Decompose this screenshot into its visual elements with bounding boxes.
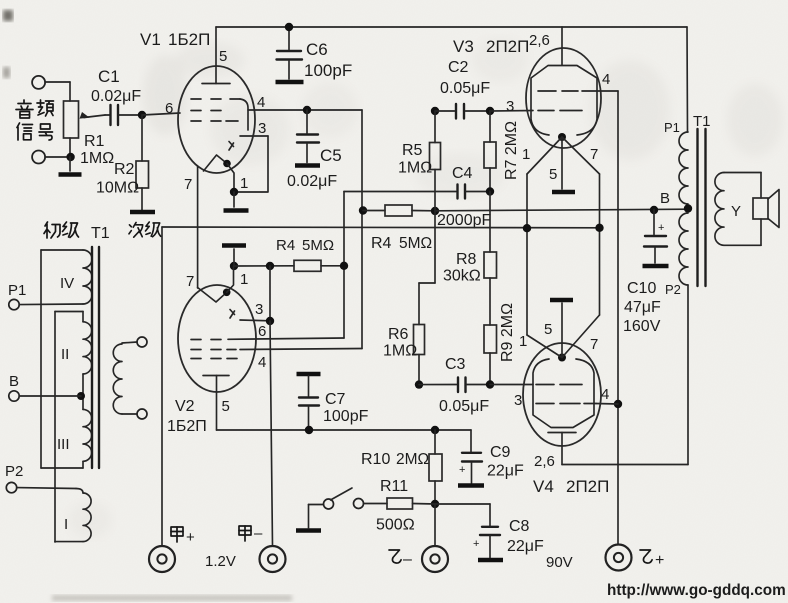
V4 pin 1 lead bbox=[527, 335, 562, 358]
svg-text:C4: C4 bbox=[452, 165, 473, 182]
svg-text:3: 3 bbox=[506, 98, 514, 115]
terminal P2 with label bbox=[6, 482, 16, 492]
label 初级 primary bbox=[44, 222, 60, 238]
V3 grid dashes row2 bbox=[538, 110, 554, 112]
V1 filament bar pin 5 bbox=[215, 27, 217, 84]
resistor R11 500Ω bbox=[364, 503, 388, 505]
svg-text:C10: C10 bbox=[627, 280, 656, 297]
node V2 pin3 bbox=[266, 317, 274, 325]
V1 cathode tick bbox=[229, 142, 234, 151]
svg-text:1Б2П: 1Б2П bbox=[167, 418, 207, 435]
svg-text:1: 1 bbox=[519, 333, 527, 350]
node C7 bottom bbox=[305, 426, 313, 434]
svg-text:0.02μF: 0.02μF bbox=[287, 173, 337, 190]
V1 pin 1 lead bbox=[227, 164, 234, 193]
svg-text:6: 6 bbox=[165, 100, 173, 117]
V4 filament bar pin 2,6 bbox=[548, 432, 576, 434]
svg-text:3: 3 bbox=[258, 120, 266, 137]
capacitor C3 0.05μF bbox=[419, 384, 457, 386]
output T1 winding P1 bbox=[679, 132, 688, 204]
T1 winding II bbox=[55, 311, 83, 313]
svg-text:+: + bbox=[186, 529, 195, 546]
svg-text:R11: R11 bbox=[380, 478, 408, 495]
svg-text:T1: T1 bbox=[91, 225, 110, 242]
svg-text:C9: C9 bbox=[490, 444, 511, 461]
svg-text:R10: R10 bbox=[361, 451, 390, 468]
T1 winding I bbox=[17, 487, 76, 490]
svg-text:R8: R8 bbox=[456, 251, 477, 268]
svg-text:1: 1 bbox=[522, 146, 530, 163]
svg-text:4: 4 bbox=[601, 386, 609, 403]
switch K contacts bbox=[324, 499, 334, 509]
capacitor C9 22μF electrolytic bbox=[470, 430, 472, 452]
svg-text:C1: C1 bbox=[98, 67, 120, 86]
svg-text:Y: Y bbox=[731, 203, 741, 220]
svg-text:4: 4 bbox=[257, 94, 265, 111]
output secondary winding bbox=[715, 173, 724, 246]
tube V3 2П2П envelope bbox=[526, 48, 601, 148]
potentiometer R1 1MΩ body bbox=[45, 81, 70, 83]
switch K ground bbox=[296, 528, 321, 533]
svg-text:160V: 160V bbox=[623, 318, 661, 335]
T1 winding III bbox=[83, 409, 92, 461]
tube V4 2П2П envelope bbox=[523, 343, 601, 446]
wire V3/V4 cathode rail pin1 bbox=[526, 174, 528, 335]
svg-text:22μF: 22μF bbox=[507, 538, 544, 555]
svg-text:500Ω: 500Ω bbox=[376, 517, 415, 534]
svg-text:1MΩ: 1MΩ bbox=[383, 343, 417, 360]
node V1 pin1 bbox=[230, 188, 238, 196]
svg-text:5: 5 bbox=[219, 48, 227, 65]
wire P2 down to V4 filament wire bbox=[687, 285, 689, 465]
svg-text:1MΩ: 1MΩ bbox=[80, 150, 114, 167]
node C1/R2/grid bbox=[138, 111, 146, 119]
svg-text:V4: V4 bbox=[533, 477, 554, 496]
svg-text:R5: R5 bbox=[402, 142, 423, 159]
V3 grid dashes row1 and pin 4 wire bbox=[538, 90, 556, 92]
svg-text:R4: R4 bbox=[276, 237, 295, 254]
svg-text:R7 2MΩ: R7 2MΩ bbox=[503, 121, 520, 180]
svg-text:B: B bbox=[9, 373, 19, 390]
svg-text:3: 3 bbox=[255, 301, 263, 318]
resistor R8 30kΩ bbox=[489, 192, 491, 253]
svg-text:P1: P1 bbox=[664, 120, 680, 135]
svg-text:100pF: 100pF bbox=[323, 408, 369, 425]
svg-text:10MΩ: 10MΩ bbox=[96, 180, 139, 197]
svg-text:3: 3 bbox=[514, 392, 522, 409]
wire input bottom to pot bbox=[45, 156, 70, 158]
wire top bus bbox=[216, 26, 687, 28]
wire B rail bbox=[435, 209, 688, 211]
node C2 right bbox=[486, 107, 494, 115]
ground above V2 pin1 bbox=[233, 249, 235, 266]
svg-text:30kΩ: 30kΩ bbox=[443, 268, 481, 285]
svg-text:C3: C3 bbox=[445, 356, 466, 373]
V3 pin 5 lead bbox=[561, 137, 563, 189]
V2 pin 3 wire bbox=[240, 319, 270, 322]
capacitor C2 0.05μF bbox=[435, 110, 455, 112]
V1 pin 4 wire to node bbox=[248, 109, 362, 111]
resistor R9 2MΩ bbox=[489, 278, 491, 325]
wire V3/V4 pin7 rail bbox=[599, 174, 601, 315]
svg-text:2000pF: 2000pF bbox=[437, 212, 491, 229]
node C4 right bbox=[486, 187, 494, 195]
wire C2 to V3 pin 3 bbox=[490, 110, 533, 113]
node pot bottom bbox=[66, 153, 74, 161]
svg-text:I: I bbox=[64, 516, 68, 533]
V1 cathode node bbox=[223, 160, 231, 168]
svg-text:5MΩ: 5MΩ bbox=[399, 235, 432, 252]
V1 pin 7 wire down to V2 pin 7 bbox=[197, 166, 199, 288]
T1 left rail outer bbox=[40, 250, 42, 468]
label 次级 secondary bbox=[129, 222, 143, 237]
V4 pin 7 lead bbox=[562, 315, 600, 358]
svg-text:2MΩ: 2MΩ bbox=[396, 451, 429, 468]
svg-text:1.2V: 1.2V bbox=[205, 553, 236, 570]
secondary terminal bottom bbox=[137, 409, 147, 419]
svg-text:II: II bbox=[61, 346, 69, 363]
node R10 bottom / 乙- feed bbox=[431, 500, 439, 508]
V2 grid dashes row2 and pin 4 wire bbox=[191, 349, 201, 351]
output T1 winding P2 bbox=[679, 213, 688, 285]
secondary winding 次级 coil bbox=[113, 344, 122, 414]
tube V1 1Б2П envelope bbox=[178, 66, 255, 173]
ground V3 pin 5 bbox=[552, 190, 575, 195]
V1 grid dashes bbox=[191, 98, 201, 100]
wire C3 to V4 pin 3 bbox=[490, 384, 533, 386]
svg-text:100pF: 100pF bbox=[304, 61, 352, 80]
svg-text:B: B bbox=[660, 190, 670, 207]
V3 filament lead pin 2,6 bbox=[561, 27, 563, 65]
resistor R7 2MΩ bbox=[489, 111, 491, 142]
wire pin3 node to 甲- terminal bbox=[270, 321, 273, 546]
svg-text:5: 5 bbox=[549, 166, 557, 183]
terminal 乙- with label bbox=[422, 546, 448, 572]
resistor R10 2MΩ bbox=[431, 426, 439, 434]
svg-text:C8: C8 bbox=[509, 518, 530, 535]
svg-text:1MΩ: 1MΩ bbox=[398, 160, 432, 177]
ground under C5 bbox=[295, 163, 320, 168]
svg-text:47μF: 47μF bbox=[624, 299, 661, 316]
node C6 top bbox=[285, 23, 293, 31]
wire anode corner down bbox=[361, 110, 363, 349]
svg-text:+: + bbox=[459, 464, 465, 476]
node C5/anode bbox=[303, 106, 311, 114]
node bus right end bbox=[595, 224, 603, 232]
V2 grid dashes row1 and pin 6 wire bbox=[191, 339, 201, 341]
svg-text:7: 7 bbox=[590, 336, 598, 353]
svg-text:P2: P2 bbox=[5, 463, 23, 480]
svg-text:7: 7 bbox=[184, 176, 192, 193]
wire B tap bbox=[19, 395, 81, 397]
svg-text:0.05μF: 0.05μF bbox=[440, 80, 490, 97]
node R4b left / V2 pin3 riser bbox=[266, 262, 274, 270]
node pin1 rail on bus bbox=[523, 224, 531, 232]
label 音频信号 (audio signal) bbox=[16, 100, 33, 118]
tube V2 1Б2П envelope bbox=[178, 285, 256, 392]
resistor R6 1MΩ bbox=[418, 283, 420, 325]
V2 cathode vee bbox=[198, 288, 227, 303]
svg-text:V2: V2 bbox=[175, 398, 195, 415]
node R9 bottom bbox=[486, 380, 494, 388]
svg-text:P2: P2 bbox=[665, 282, 681, 297]
wire coupling to C4 bbox=[344, 191, 456, 193]
node V2 pin1 bbox=[230, 262, 238, 270]
svg-text:R6: R6 bbox=[388, 326, 409, 343]
V1 cathode vee bbox=[204, 155, 228, 171]
svg-text:C7: C7 bbox=[325, 391, 346, 408]
svg-text:C5: C5 bbox=[320, 146, 342, 165]
capacitor C7 100pF with top ground bbox=[297, 372, 321, 377]
resistor R2 10MΩ bbox=[141, 115, 143, 161]
V1 pin3-pin1 feedback loop bbox=[234, 136, 268, 192]
terminal 甲+ with label bbox=[149, 546, 175, 572]
T1 left rail inner bbox=[54, 312, 56, 543]
svg-text:7: 7 bbox=[590, 146, 598, 163]
node R6 bottom bbox=[415, 380, 423, 388]
V2 grid dashes row3 bbox=[191, 358, 201, 360]
ground under C9 bbox=[458, 483, 484, 488]
V1 pin 3 wire bbox=[240, 135, 268, 137]
svg-text:R4: R4 bbox=[371, 235, 392, 252]
ground V1 pin 1 bbox=[233, 192, 235, 207]
wire V3 pin 4 down to V4 pin 4 bbox=[617, 91, 619, 544]
output T1 core bbox=[696, 129, 698, 286]
capacitor C4 2000pF bbox=[456, 185, 458, 199]
V4 cathode node bbox=[558, 354, 566, 362]
svg-text:22μF: 22μF bbox=[487, 463, 524, 480]
svg-text:IV: IV bbox=[60, 275, 74, 292]
svg-text:1Б2П: 1Б2П bbox=[168, 30, 210, 49]
speaker Y bbox=[753, 198, 768, 219]
svg-text:6: 6 bbox=[258, 323, 266, 340]
ground under R2 bbox=[130, 210, 155, 215]
wire V4 pin 4 bbox=[596, 403, 618, 406]
svg-text:7: 7 bbox=[186, 273, 194, 290]
svg-text:R2: R2 bbox=[114, 161, 135, 178]
svg-text:http://www.go-gddq.com: http://www.go-gddq.com bbox=[607, 582, 786, 599]
svg-text:5: 5 bbox=[544, 321, 552, 338]
svg-text:2П2П: 2П2П bbox=[566, 477, 609, 496]
V3 screen box bbox=[531, 66, 597, 136]
svg-text:+: + bbox=[473, 538, 479, 550]
svg-text:4: 4 bbox=[602, 71, 610, 88]
node B tap T1 bbox=[77, 392, 85, 400]
svg-text:III: III bbox=[57, 436, 70, 453]
svg-text:0.02μF: 0.02μF bbox=[91, 88, 141, 105]
input terminal J1 bottom bbox=[32, 151, 45, 164]
svg-text:5: 5 bbox=[222, 398, 230, 415]
V2 cathode node bbox=[223, 289, 231, 297]
wire top bus right corner down bbox=[686, 27, 689, 132]
svg-text:+: + bbox=[658, 222, 664, 234]
ground under C6 bbox=[276, 80, 304, 85]
resistor R5 1MΩ bbox=[434, 111, 436, 143]
secondary terminal top bbox=[137, 337, 147, 347]
ground V4 pin 5 above bbox=[550, 298, 573, 303]
V4 pin 5 lead bbox=[561, 303, 563, 358]
node C2 left bbox=[431, 107, 439, 115]
svg-text:R1: R1 bbox=[84, 133, 105, 150]
V2 filament bar pin 5 bbox=[203, 375, 229, 377]
wire R5 node down to R6 bbox=[434, 211, 436, 283]
node B tap output T1 bbox=[684, 204, 692, 212]
potentiometer R1 wiper arrow bbox=[84, 115, 105, 118]
svg-text:C2: C2 bbox=[448, 59, 469, 76]
node V4 pin 4 bbox=[614, 400, 622, 408]
resistor R4a 5MΩ bbox=[363, 210, 385, 212]
svg-text:2,6: 2,6 bbox=[529, 32, 550, 49]
svg-text:1: 1 bbox=[240, 271, 248, 288]
svg-text:V3: V3 bbox=[453, 37, 474, 56]
capacitor C10 47μF 160V bbox=[650, 206, 658, 214]
T1 winding IV bbox=[41, 249, 83, 251]
resistor R4b 5MΩ bbox=[234, 265, 294, 267]
node R4b right bbox=[340, 262, 348, 270]
svg-text:0.05μF: 0.05μF bbox=[439, 398, 489, 415]
svg-text:T1: T1 bbox=[693, 113, 711, 130]
ground under C10 bbox=[643, 264, 669, 269]
wire to 乙- terminal bbox=[434, 504, 436, 545]
capacitor C5 0.02μF bbox=[306, 110, 308, 133]
terminal 甲- with label bbox=[260, 546, 286, 572]
svg-text:90V: 90V bbox=[546, 554, 573, 571]
ground under C8 bbox=[478, 558, 503, 563]
svg-text:2,6: 2,6 bbox=[534, 453, 555, 470]
svg-text:2П2П: 2П2П bbox=[486, 37, 529, 56]
node R4a right / R5 / R6 / B rail bbox=[431, 207, 439, 215]
V1 anode contour bbox=[240, 99, 248, 130]
V3 pin 1 lead bbox=[527, 137, 562, 174]
svg-text:+: + bbox=[655, 552, 664, 569]
node R4a left bbox=[359, 206, 367, 214]
svg-text:1: 1 bbox=[240, 175, 248, 192]
input terminal J1 top bbox=[32, 76, 45, 89]
svg-text:P1: P1 bbox=[8, 282, 26, 299]
capacitor C6 100pF bbox=[288, 27, 290, 50]
capacitor C8 22μF electrolytic bbox=[435, 503, 490, 505]
wire V2 pin3 riser bbox=[269, 266, 271, 321]
svg-text:R9 2MΩ: R9 2MΩ bbox=[499, 303, 516, 362]
ground under R1 bbox=[69, 157, 71, 171]
V3 pin 7 lead bbox=[562, 137, 600, 174]
T1 core left bbox=[91, 247, 93, 468]
svg-text:–: – bbox=[403, 551, 412, 568]
svg-text:–: – bbox=[254, 525, 263, 542]
V4 grid dashes row2 and pin4 stub bbox=[536, 403, 554, 405]
terminal 乙+ with label bbox=[606, 545, 632, 571]
svg-text:4: 4 bbox=[258, 354, 266, 371]
wire long bus bbox=[162, 226, 600, 229]
terminal P1 with label bbox=[9, 299, 19, 309]
wire V4 filament to output transformer bbox=[562, 464, 688, 466]
wire grid to V1 pin 6 bbox=[142, 113, 180, 115]
V4 screen box bbox=[533, 359, 594, 428]
V2 cathode tick bbox=[230, 310, 235, 319]
V2 pin 1 lead bbox=[227, 266, 234, 292]
svg-text:C6: C6 bbox=[306, 40, 328, 59]
svg-text:V1: V1 bbox=[140, 30, 161, 49]
capacitor C1 0.02μF bbox=[105, 114, 110, 116]
svg-text:5MΩ: 5MΩ bbox=[302, 237, 334, 254]
wire bus down to 甲+ bbox=[161, 227, 163, 546]
V3 cathode node bbox=[558, 133, 566, 141]
terminal B with label bbox=[9, 391, 19, 401]
wire filament row bbox=[217, 429, 472, 431]
V4 grid dashes row1 bbox=[536, 384, 554, 386]
